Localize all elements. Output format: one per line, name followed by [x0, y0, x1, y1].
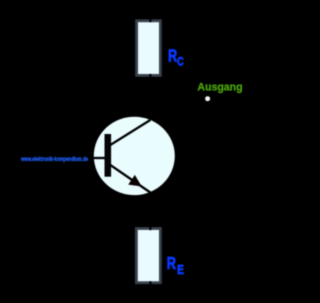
svg-text:C: C: [177, 55, 184, 69]
svg-text:Ausgang: Ausgang: [197, 81, 242, 93]
svg-text:www.elektronik-kompendium.de: www.elektronik-kompendium.de: [20, 157, 88, 163]
svg-text:R: R: [168, 46, 177, 65]
svg-text:R: R: [167, 254, 176, 273]
svg-text:E: E: [177, 263, 184, 277]
